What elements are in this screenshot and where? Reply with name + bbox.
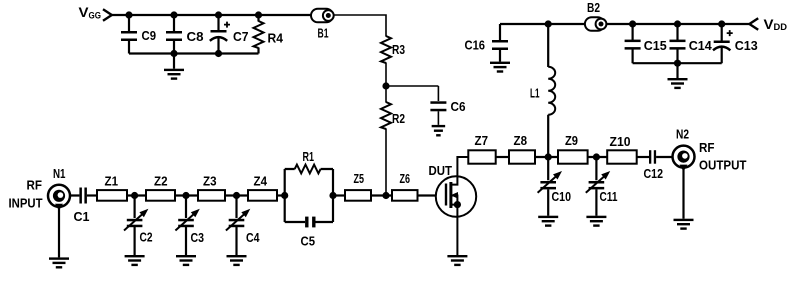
svg-text:C9: C9: [142, 28, 157, 43]
svg-text:Z2: Z2: [154, 174, 168, 189]
svg-text:R3: R3: [392, 42, 405, 57]
svg-text:R1: R1: [303, 149, 315, 164]
svg-text:Z3: Z3: [203, 174, 217, 189]
svg-text:GG: GG: [89, 11, 102, 22]
svg-text:C11: C11: [600, 189, 618, 204]
svg-text:C12: C12: [644, 166, 664, 181]
svg-text:C4: C4: [246, 230, 260, 245]
svg-text:DUT: DUT: [429, 163, 453, 178]
svg-text:C5: C5: [301, 234, 316, 249]
svg-text:C7: C7: [233, 29, 249, 44]
svg-text:C16: C16: [465, 38, 486, 53]
svg-text:DD: DD: [774, 22, 788, 33]
svg-text:OUTPUT: OUTPUT: [699, 158, 747, 173]
svg-text:RF: RF: [699, 140, 715, 155]
svg-text:Z10: Z10: [610, 134, 631, 149]
svg-text:Z7: Z7: [475, 133, 489, 148]
svg-text:C15: C15: [644, 38, 667, 53]
svg-text:C14: C14: [689, 38, 713, 53]
svg-text:Z5: Z5: [354, 171, 365, 186]
svg-text:INPUT: INPUT: [9, 196, 43, 211]
svg-text:C10: C10: [552, 189, 572, 204]
svg-text:Z8: Z8: [514, 133, 528, 148]
svg-text:B2: B2: [587, 0, 600, 15]
svg-text:C13: C13: [735, 38, 758, 53]
svg-text:C8: C8: [187, 29, 204, 44]
svg-text:R4: R4: [268, 31, 284, 46]
svg-text:N1: N1: [53, 166, 66, 181]
svg-text:Z4: Z4: [254, 174, 268, 189]
svg-text:C2: C2: [140, 230, 153, 245]
svg-text:C1: C1: [74, 209, 90, 224]
svg-text:RF: RF: [27, 178, 43, 193]
svg-text:L1: L1: [530, 86, 540, 101]
svg-text:Z6: Z6: [400, 171, 411, 186]
svg-text:B1: B1: [318, 26, 329, 41]
svg-text:Z1: Z1: [105, 174, 119, 189]
svg-text:C6: C6: [451, 99, 466, 114]
svg-text:N2: N2: [676, 127, 689, 142]
svg-text:Z9: Z9: [565, 133, 578, 148]
svg-text:R2: R2: [392, 111, 405, 126]
svg-text:C3: C3: [191, 230, 205, 245]
